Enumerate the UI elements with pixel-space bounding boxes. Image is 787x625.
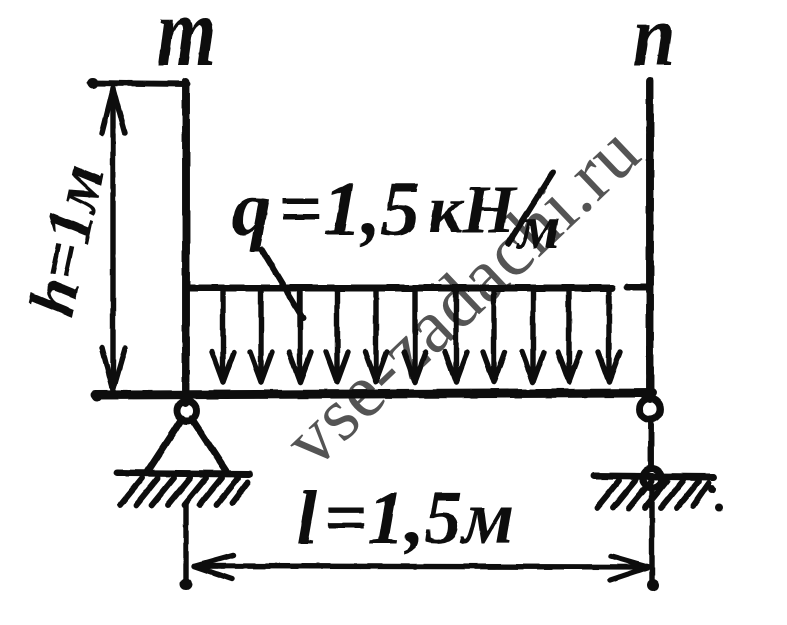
svg-text:m: m <box>157 0 216 87</box>
svg-text:=1,5м: =1,5м <box>324 476 514 560</box>
svg-text:=1,5: =1,5 <box>278 165 420 252</box>
svg-text:кН: кН <box>428 171 517 247</box>
svg-text:q: q <box>232 165 271 252</box>
svg-text:м: м <box>515 194 560 262</box>
svg-text:l: l <box>296 476 317 560</box>
svg-text:n: n <box>633 0 675 85</box>
